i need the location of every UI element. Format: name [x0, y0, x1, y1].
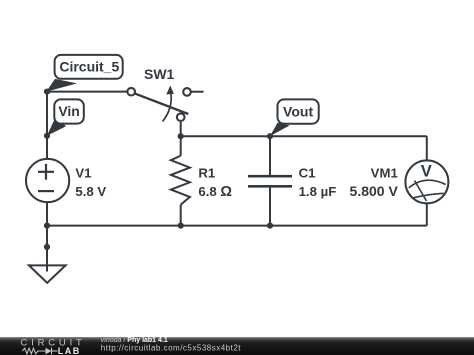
resistor R1	[171, 156, 233, 205]
svg-text:6.8 Ω: 6.8 Ω	[198, 184, 232, 200]
wire SW1 bottom terminal to mid rail	[180, 122, 182, 136]
wire VM1 top stub	[426, 136, 428, 161]
node SW1/R1 junction	[178, 133, 184, 139]
bottom terminal	[177, 113, 185, 121]
wire left vertical top (node to V1)	[46, 92, 48, 160]
footer bar	[0, 337, 474, 355]
svg-text:Vin: Vin	[58, 103, 80, 119]
svg-text:1.8 µF: 1.8 µF	[299, 184, 337, 199]
left terminal	[127, 88, 135, 96]
svg-text:Vout: Vout	[283, 103, 313, 119]
wire C1 top stub	[269, 136, 271, 176]
node R1 bottom	[178, 223, 184, 229]
svg-text:http://circuitlab.com/c5x538sx: http://circuitlab.com/c5x538sx4bt2t	[101, 344, 242, 353]
wire VM1 bottom stub	[426, 203, 428, 226]
svg-text:VM1: VM1	[371, 166, 398, 181]
net label Circuit_5	[46, 55, 122, 92]
arrow	[163, 91, 172, 122]
net label Vout	[270, 99, 319, 136]
node bottom left	[44, 223, 50, 229]
capacitor C1	[248, 166, 336, 199]
node C1 bottom	[267, 223, 273, 229]
wire V1 bottom to bottom rail	[46, 202, 48, 226]
svg-text:C1: C1	[299, 166, 316, 181]
voltmeter VM1	[350, 160, 449, 203]
svg-text:LAB: LAB	[58, 346, 81, 355]
svg-text:5.8 V: 5.8 V	[75, 184, 106, 199]
svg-text:V1: V1	[75, 166, 91, 181]
right terminal	[183, 88, 191, 96]
voltage source V1	[26, 159, 106, 202]
wire C1 bottom stub	[269, 186, 271, 225]
node junction dots	[44, 89, 273, 250]
wire SW1 right stub	[191, 91, 204, 93]
CircuitLab logo	[21, 337, 86, 355]
blade	[135, 94, 188, 114]
svg-text:V: V	[421, 163, 432, 181]
ground	[29, 265, 66, 283]
svg-text:R1: R1	[198, 166, 215, 181]
wire mid rail	[181, 135, 427, 137]
node Vin top junction	[44, 89, 50, 95]
svg-text:SW1: SW1	[144, 66, 175, 82]
switch SW1	[127, 66, 190, 122]
node ground	[44, 244, 50, 250]
node Vin	[44, 133, 50, 139]
wire top horizontal (node to SW1 left terminal)	[47, 91, 127, 93]
svg-text:Circuit_5: Circuit_5	[59, 59, 119, 75]
svg-text:5.800 V: 5.800 V	[350, 183, 399, 199]
wire ground stem	[46, 226, 48, 272]
wire R1 top stub	[180, 136, 182, 155]
net label Vin	[47, 99, 84, 135]
footer credit text	[101, 337, 242, 353]
wire bottom rail	[47, 225, 427, 227]
node Vout	[267, 133, 273, 139]
wire R1 bottom stub	[180, 205, 182, 226]
